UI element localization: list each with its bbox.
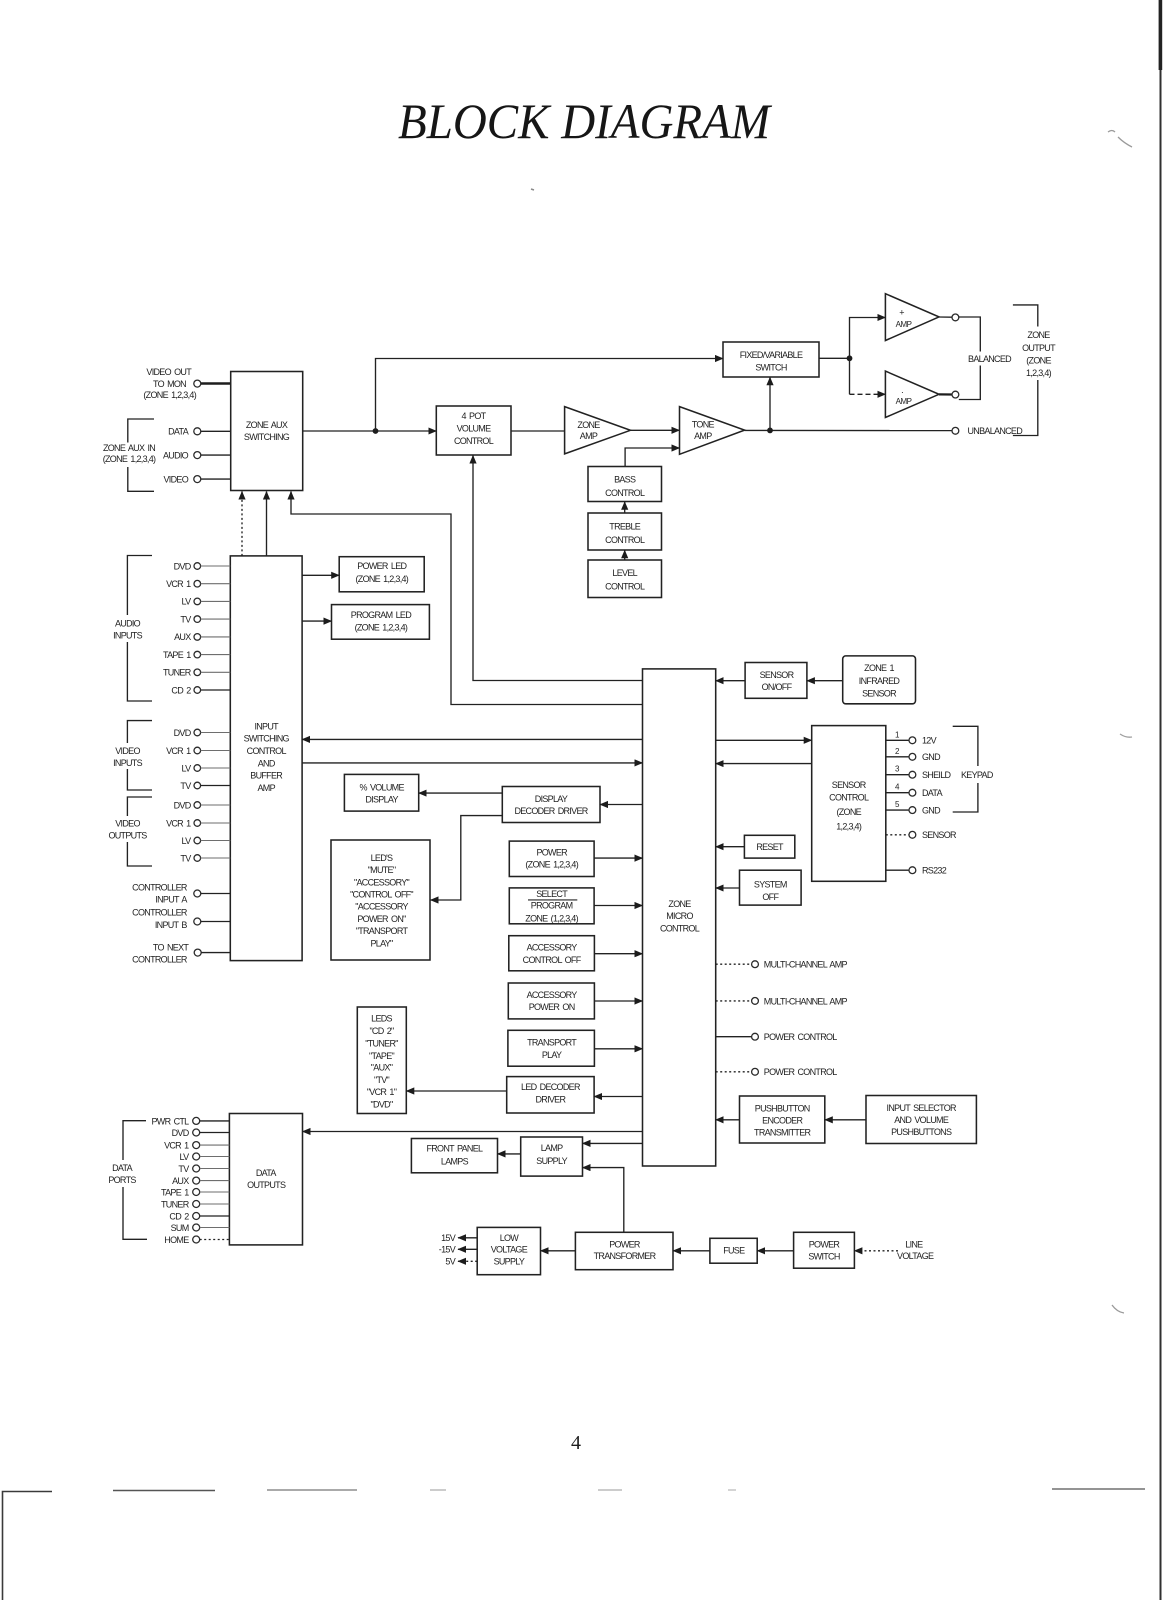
svg-text:"AUX": "AUX" bbox=[371, 1063, 393, 1073]
svg-text:POWER CONTROL: POWER CONTROL bbox=[764, 1067, 837, 1077]
svg-text:ON/OFF: ON/OFF bbox=[762, 682, 793, 692]
svg-text:TUNER: TUNER bbox=[163, 668, 192, 678]
svg-text:5V: 5V bbox=[445, 1257, 455, 1267]
svg-text:(ZONE 1,2,3,4): (ZONE 1,2,3,4) bbox=[143, 390, 196, 400]
wire 4 POT to ZONE AMP bbox=[511, 430, 565, 432]
svg-text:"TRANSPORT: "TRANSPORT bbox=[356, 926, 409, 936]
svg-text:AUX: AUX bbox=[174, 632, 191, 642]
terminal TUNER (data port) bbox=[161, 1199, 229, 1209]
wire ZONE AUX SWITCHING to 4 POT VOLUME CONTROL bbox=[303, 430, 437, 432]
svg-text:CONTROL: CONTROL bbox=[605, 488, 645, 498]
wire input switching to zone aux (solid) bbox=[266, 492, 268, 556]
block DISPLAY DECODER DRIVER bbox=[502, 787, 600, 823]
svg-text:"CD 2": "CD 2" bbox=[369, 1026, 394, 1036]
svg-text:AND VOLUME: AND VOLUME bbox=[894, 1115, 949, 1125]
svg-text:SWITCHING: SWITCHING bbox=[244, 734, 290, 744]
svg-text:ZONE 1: ZONE 1 bbox=[864, 663, 894, 673]
svg-text:-15V: -15V bbox=[439, 1245, 456, 1255]
svg-text:ENCODER: ENCODER bbox=[762, 1115, 803, 1125]
svg-text:TONE: TONE bbox=[692, 420, 715, 430]
terminal CONTROLLER INPUT A bbox=[132, 882, 230, 904]
terminal DVD (data port) bbox=[172, 1128, 230, 1138]
svg-text:AND: AND bbox=[258, 758, 276, 768]
svg-text:DVD: DVD bbox=[174, 800, 192, 810]
svg-text:AUDIO: AUDIO bbox=[163, 450, 189, 460]
svg-text:"CONTROL OFF": "CONTROL OFF" bbox=[350, 890, 413, 900]
svg-text:PROGRAM: PROGRAM bbox=[531, 901, 573, 911]
wire system off to zone micro bbox=[716, 887, 740, 889]
scan artifact: right edge line bbox=[1160, 0, 1162, 1600]
svg-text:ZONE AUX: ZONE AUX bbox=[246, 420, 288, 430]
svg-text:VOLTAGE: VOLTAGE bbox=[897, 1251, 934, 1261]
svg-text:INPUTS: INPUTS bbox=[113, 758, 143, 768]
svg-text:TUNER: TUNER bbox=[161, 1199, 190, 1209]
svg-text:POWER CONTROL: POWER CONTROL bbox=[764, 1032, 837, 1042]
wire zone micro to led decoder driver bbox=[594, 1096, 642, 1098]
svg-text:INPUT B: INPUT B bbox=[155, 920, 188, 930]
bracket ZONE OUTPUT (ZONE 1,2,3,4) bbox=[1013, 305, 1056, 436]
wire input switching to program led bbox=[302, 620, 331, 622]
terminal DATA bbox=[168, 427, 231, 437]
svg-text:ZONE (1,2,3,4): ZONE (1,2,3,4) bbox=[525, 913, 578, 923]
svg-text:(ZONE 1,2,3,4): (ZONE 1,2,3,4) bbox=[525, 860, 578, 870]
block POWER LED (ZONE 1,2,3,4) bbox=[339, 557, 424, 592]
svg-text:SENSOR: SENSOR bbox=[760, 670, 795, 680]
svg-text:TAPE 1: TAPE 1 bbox=[161, 1187, 189, 1197]
svg-text:PUSHBUTTONS: PUSHBUTTONS bbox=[891, 1127, 952, 1137]
wire accessory power on to zone micro bbox=[594, 1000, 642, 1002]
svg-text:SWITCH: SWITCH bbox=[755, 362, 786, 372]
svg-text:(ZONE 1,2,3,4): (ZONE 1,2,3,4) bbox=[103, 454, 156, 464]
terminal +AMP output bbox=[939, 316, 952, 318]
bracket VIDEO OUTPUTS bbox=[108, 797, 152, 866]
svg-text:SUPPLY: SUPPLY bbox=[536, 1156, 567, 1166]
wire BASS CONTROL up to TONE AMP bbox=[625, 448, 679, 467]
bracket AUDIO INPUTS bbox=[113, 556, 152, 702]
svg-text:CONTROL OFF: CONTROL OFF bbox=[523, 955, 582, 965]
block ZONE AUX SWITCHING bbox=[231, 372, 303, 491]
wire junction to minus amp (dashed) bbox=[849, 358, 851, 394]
svg-text:PLAY": PLAY" bbox=[370, 938, 393, 948]
block LOW VOLTAGE SUPPLY bbox=[477, 1227, 540, 1274]
svg-text:LED'S: LED'S bbox=[371, 853, 393, 863]
svg-text:KEYPAD: KEYPAD bbox=[961, 770, 994, 780]
svg-text:RESET: RESET bbox=[756, 842, 784, 852]
terminal 5V output bbox=[445, 1257, 477, 1267]
svg-text:RS232: RS232 bbox=[922, 866, 947, 876]
svg-text:CONTROLLER: CONTROLLER bbox=[132, 907, 188, 917]
svg-text:DISPLAY: DISPLAY bbox=[535, 794, 568, 804]
svg-text:LEVEL: LEVEL bbox=[612, 568, 637, 578]
svg-text:FIXED/VARIABLE: FIXED/VARIABLE bbox=[740, 350, 803, 360]
svg-text:CONTROL: CONTROL bbox=[605, 581, 645, 591]
block BASS CONTROL bbox=[588, 467, 662, 502]
wire ZONE MICRO to zone aux switching bbox=[291, 492, 643, 705]
svg-text:CONTROL: CONTROL bbox=[454, 436, 494, 446]
wire LEVEL to TREBLE bbox=[624, 550, 626, 560]
svg-text:DATA: DATA bbox=[112, 1163, 133, 1173]
block DATA OUTPUTS bbox=[229, 1114, 302, 1245]
wire junction up to fixed/variable switch bottom bbox=[769, 377, 771, 430]
terminal TV (data port) bbox=[178, 1164, 229, 1174]
svg-text:.: . bbox=[901, 385, 903, 395]
block LED DECODER DRIVER bbox=[507, 1077, 594, 1113]
svg-text:VOLUME: VOLUME bbox=[457, 423, 492, 433]
terminal SUM (data port) bbox=[171, 1223, 230, 1233]
bracket DATA PORTS bbox=[108, 1121, 147, 1240]
svg-text:"ACCESSORY": "ACCESSORY" bbox=[354, 877, 410, 887]
svg-text:"TUNER": "TUNER" bbox=[365, 1039, 398, 1049]
node junction after tone amp bbox=[767, 428, 773, 434]
svg-text:UNBALANCED: UNBALANCED bbox=[968, 426, 1024, 436]
terminal PWR CTL (data port) bbox=[151, 1116, 229, 1126]
svg-text:BASS: BASS bbox=[614, 475, 636, 485]
terminal VCR 1 (video input) bbox=[166, 746, 230, 756]
svg-text:AMP: AMP bbox=[694, 431, 712, 441]
terminal CD 2 (data port) bbox=[169, 1211, 229, 1221]
wire display decoder driver to % volume display bbox=[419, 792, 503, 794]
svg-text:TO NEXT: TO NEXT bbox=[153, 942, 190, 952]
svg-text:PUSHBUTTON: PUSHBUTTON bbox=[755, 1103, 810, 1113]
wire led decoder driver to leds box bbox=[406, 1090, 506, 1092]
block FUSE bbox=[710, 1238, 757, 1263]
wire power switch to fuse bbox=[757, 1250, 793, 1252]
svg-text:ZONE: ZONE bbox=[577, 420, 600, 430]
svg-text:SUPPLY: SUPPLY bbox=[494, 1257, 525, 1267]
svg-text:TAPE 1: TAPE 1 bbox=[163, 650, 191, 660]
block POWER (ZONE 1,2,3,4) bbox=[509, 841, 594, 876]
block TRANSPORT PLAY bbox=[508, 1030, 595, 1066]
svg-text:DRIVER: DRIVER bbox=[535, 1095, 566, 1105]
svg-text:SHEILD: SHEILD bbox=[922, 770, 952, 780]
terminal VCR 1 (audio input) bbox=[166, 579, 230, 589]
svg-text:BUFFER: BUFFER bbox=[250, 771, 283, 781]
wire sensor control to zone micro bbox=[716, 763, 812, 765]
svg-text:SENSOR: SENSOR bbox=[832, 780, 867, 790]
svg-text:DVD: DVD bbox=[174, 561, 192, 571]
svg-text:DATA: DATA bbox=[168, 427, 189, 437]
block FIXED/VARIABLE SWITCH bbox=[723, 342, 819, 377]
svg-text:1,2,3,4): 1,2,3,4) bbox=[836, 821, 862, 831]
svg-text:(ZONE: (ZONE bbox=[836, 807, 861, 817]
wire lamp supply to front panel lamps bbox=[498, 1153, 521, 1155]
block LED'S MUTE ACCESSORY list bbox=[331, 840, 430, 960]
svg-text:4: 4 bbox=[571, 1432, 581, 1454]
terminal RS232 bbox=[886, 866, 947, 876]
terminal UNBALANCED bbox=[952, 426, 1023, 436]
svg-text:INPUTS: INPUTS bbox=[113, 631, 143, 641]
svg-text:DVD: DVD bbox=[174, 728, 192, 738]
wire fixed/variable to amp pair junction bbox=[819, 357, 850, 359]
terminal HOME (data port) bbox=[164, 1235, 229, 1245]
amplifier +AMP bbox=[885, 294, 939, 341]
svg-text:POWER ON: POWER ON bbox=[529, 1002, 575, 1012]
bracket KEYPAD bbox=[953, 726, 994, 812]
svg-text:PLAY: PLAY bbox=[542, 1050, 562, 1060]
svg-text:PORTS: PORTS bbox=[108, 1175, 136, 1185]
svg-text:TV: TV bbox=[180, 614, 191, 624]
svg-text:AUX: AUX bbox=[172, 1176, 189, 1186]
svg-text:MULTI-CHANNEL AMP: MULTI-CHANNEL AMP bbox=[764, 996, 848, 1006]
svg-text:TO MON: TO MON bbox=[153, 379, 186, 389]
terminal LV (data port) bbox=[180, 1152, 230, 1162]
svg-text:SENSOR: SENSOR bbox=[922, 830, 957, 840]
block SENSOR CONTROL (ZONE 1,2,3,4) bbox=[812, 726, 886, 882]
svg-text:FUSE: FUSE bbox=[723, 1246, 745, 1256]
svg-text:4 POT: 4 POT bbox=[462, 411, 487, 421]
svg-text:CONTROLLER: CONTROLLER bbox=[132, 882, 188, 892]
svg-text:POWER LED: POWER LED bbox=[357, 561, 407, 571]
svg-text:TV: TV bbox=[180, 781, 191, 791]
wire INPUT SWITCHING to ZONE MICRO bbox=[302, 762, 642, 764]
wire ZONE MICRO to INPUT SWITCHING bbox=[302, 738, 642, 740]
svg-text:DISPLAY: DISPLAY bbox=[365, 794, 398, 804]
svg-text:VCR 1: VCR 1 bbox=[166, 746, 191, 756]
wire junction to plus amp bbox=[850, 318, 886, 359]
block INPUT SELECTOR AND VOLUME PUSHBUTTONS bbox=[866, 1096, 976, 1144]
block LEVEL CONTROL bbox=[588, 560, 662, 598]
svg-text:"ACCESSORY: "ACCESSORY bbox=[355, 902, 408, 912]
wire input switching to zone aux (dashed) bbox=[241, 492, 243, 556]
svg-text:CONTROL: CONTROL bbox=[605, 535, 645, 545]
wire fuse to power transformer bbox=[673, 1250, 710, 1252]
svg-text:VCR 1: VCR 1 bbox=[164, 1141, 189, 1151]
block ZONE 1 INFRARED SENSOR bbox=[843, 656, 916, 704]
block SENSOR ON/OFF bbox=[745, 663, 807, 699]
node junction amp split bbox=[847, 355, 853, 361]
scan artifact: bottom dashed page edge bbox=[113, 1490, 215, 1492]
keypad pin 2 GND bbox=[886, 747, 941, 762]
svg-text:POWER: POWER bbox=[536, 847, 568, 857]
terminal VCR 1 (video output) bbox=[166, 818, 230, 828]
svg-text:AMP: AMP bbox=[896, 320, 912, 329]
svg-text:DATA: DATA bbox=[922, 788, 943, 798]
svg-text:TRANSPORT: TRANSPORT bbox=[527, 1038, 577, 1048]
svg-text:SENSOR: SENSOR bbox=[862, 688, 897, 698]
wire ZONE AMP to TONE AMP bbox=[630, 429, 679, 431]
svg-text:ACCESSORY: ACCESSORY bbox=[527, 990, 578, 1000]
svg-text:VIDEO: VIDEO bbox=[163, 474, 188, 484]
svg-text:VIDEO OUT: VIDEO OUT bbox=[146, 367, 192, 377]
terminal LV (video output) bbox=[182, 836, 231, 846]
bracket VIDEO INPUTS bbox=[113, 721, 152, 790]
svg-text:12V: 12V bbox=[922, 736, 937, 746]
wire junction up to fixed/variable switch bbox=[376, 359, 724, 432]
svg-text:BALANCED: BALANCED bbox=[968, 354, 1012, 364]
wire power transformer to lamp supply bbox=[583, 1168, 624, 1233]
svg-text:DECODER DRIVER: DECODER DRIVER bbox=[514, 806, 588, 816]
terminal -AMP output bbox=[939, 393, 952, 395]
svg-text:"TAPE": "TAPE" bbox=[369, 1051, 395, 1061]
svg-text:LINE: LINE bbox=[905, 1240, 923, 1250]
svg-text:GND: GND bbox=[922, 806, 941, 816]
svg-text:VOLTAGE: VOLTAGE bbox=[491, 1245, 528, 1255]
wire zone 1 infrared sensor to sensor on/off bbox=[807, 680, 843, 682]
svg-text:BLOCK DIAGRAM: BLOCK DIAGRAM bbox=[398, 93, 772, 149]
svg-text:MULTI-CHANNEL AMP: MULTI-CHANNEL AMP bbox=[764, 960, 848, 970]
scan artifact: bottom-left page corner bbox=[3, 1492, 53, 1600]
svg-text:AMP: AMP bbox=[580, 431, 598, 441]
svg-text:ACCESSORY: ACCESSORY bbox=[527, 943, 578, 953]
block ZONE MICRO CONTROL bbox=[643, 669, 716, 1166]
svg-text:"MUTE": "MUTE" bbox=[368, 865, 396, 875]
block 4 POT VOLUME CONTROL bbox=[436, 406, 511, 455]
svg-text:LV: LV bbox=[182, 597, 192, 607]
svg-text:CD 2: CD 2 bbox=[171, 685, 191, 695]
svg-text:INFRARED: INFRARED bbox=[859, 676, 901, 686]
svg-text:CONTROLLER: CONTROLLER bbox=[132, 954, 188, 964]
wire accessory control off to zone micro bbox=[594, 953, 642, 955]
amplifier TONE AMP bbox=[680, 407, 745, 455]
terminal -15V output bbox=[439, 1245, 477, 1255]
svg-text:SUM: SUM bbox=[171, 1223, 189, 1233]
svg-text:INPUT A: INPUT A bbox=[155, 895, 187, 905]
keypad pin 3 SHEILD bbox=[886, 765, 952, 780]
svg-text:LV: LV bbox=[180, 1152, 190, 1162]
block PROGRAM LED (ZONE 1,2,3,4) bbox=[332, 605, 430, 640]
terminal POWER CONTROL 1 bbox=[716, 1032, 838, 1042]
terminal MULTI-CHANNEL AMP 2 bbox=[716, 996, 848, 1006]
wire ZONE MICRO to display decoder driver bbox=[600, 804, 643, 806]
keypad pin 1 12V bbox=[886, 730, 937, 745]
keypad pin 4 DATA bbox=[886, 783, 943, 798]
terminal VIDEO OUT TO MON bbox=[143, 367, 231, 400]
wire TONE AMP to unbalanced output bbox=[745, 429, 952, 431]
svg-text:ZONE AUX IN: ZONE AUX IN bbox=[103, 443, 155, 453]
svg-text:FRONT PANEL: FRONT PANEL bbox=[426, 1143, 483, 1153]
terminal TV (video output) bbox=[180, 853, 230, 863]
terminal DVD (video input) bbox=[174, 728, 231, 738]
svg-text:TRANSFORMER: TRANSFORMER bbox=[594, 1251, 657, 1261]
terminal TV (video input) bbox=[180, 781, 230, 791]
svg-text:LOW: LOW bbox=[500, 1233, 520, 1243]
terminal DVD (audio input) bbox=[174, 561, 231, 571]
terminal CD 2 (audio input) bbox=[171, 685, 230, 695]
terminal LV (audio input) bbox=[182, 597, 231, 607]
terminal AUDIO bbox=[163, 450, 231, 460]
wire power transformer to low voltage supply bbox=[541, 1250, 576, 1252]
wire input switching to power led bbox=[302, 574, 339, 576]
svg-text:TV: TV bbox=[180, 853, 191, 863]
svg-text:LED DECODER: LED DECODER bbox=[521, 1082, 581, 1092]
terminal CONTROLLER INPUT B bbox=[132, 907, 230, 930]
wire transport play to zone micro bbox=[594, 1048, 642, 1050]
svg-text:% VOLUME: % VOLUME bbox=[359, 783, 404, 793]
block ACCESSORY POWER ON bbox=[508, 983, 594, 1019]
svg-text:VCR 1: VCR 1 bbox=[166, 579, 191, 589]
wire ZONE MICRO to 4 POT VOLUME CONTROL bottom bbox=[473, 456, 643, 681]
svg-text:LAMPS: LAMPS bbox=[441, 1156, 469, 1166]
svg-text:CONTROL: CONTROL bbox=[829, 793, 869, 803]
svg-text:TREBLE: TREBLE bbox=[609, 521, 641, 531]
bracket BALANCED bbox=[959, 317, 1012, 400]
block INPUT SWITCHING CONTROL AND BUFFER AMP bbox=[230, 556, 302, 961]
terminal SENSOR bbox=[886, 830, 957, 840]
svg-text:VIDEO: VIDEO bbox=[115, 818, 140, 828]
block POWER TRANSFORMER bbox=[575, 1232, 673, 1269]
svg-text:DVD: DVD bbox=[172, 1128, 190, 1138]
svg-text:(ZONE: (ZONE bbox=[1026, 355, 1051, 365]
svg-text:SWITCHING: SWITCHING bbox=[244, 432, 290, 442]
svg-text:"DVD": "DVD" bbox=[371, 1099, 393, 1109]
svg-text:POWER ON": POWER ON" bbox=[357, 914, 406, 924]
svg-text:SYSTEM: SYSTEM bbox=[754, 879, 787, 889]
terminal TAPE 1 (data port) bbox=[161, 1187, 229, 1197]
svg-text:OFF: OFF bbox=[762, 892, 779, 902]
block POWER SWITCH bbox=[794, 1232, 855, 1268]
svg-text:1,2,3,4): 1,2,3,4) bbox=[1026, 368, 1052, 378]
bracket ZONE AUX IN bbox=[103, 419, 156, 491]
keypad pin 5 GND bbox=[886, 800, 941, 815]
svg-text:(ZONE 1,2,3,4): (ZONE 1,2,3,4) bbox=[355, 622, 408, 632]
svg-text:+: + bbox=[899, 307, 904, 317]
svg-text:"VCR 1": "VCR 1" bbox=[367, 1087, 397, 1097]
svg-text:PROGRAM LED: PROGRAM LED bbox=[351, 610, 412, 620]
terminal DVD (video output) bbox=[174, 800, 231, 810]
svg-text:DATA: DATA bbox=[256, 1168, 277, 1178]
wire sensor on/off to zone micro bbox=[716, 680, 745, 682]
wire display decoder driver to LED'S box bbox=[431, 816, 503, 900]
svg-text:OUTPUTS: OUTPUTS bbox=[247, 1180, 286, 1190]
svg-text:15V: 15V bbox=[441, 1233, 456, 1243]
block LEDS CD2 TUNER list bbox=[357, 1007, 406, 1114]
terminal VCR 1 (data port) bbox=[164, 1141, 229, 1151]
terminal AUX (audio input) bbox=[174, 632, 230, 642]
svg-text:AMP: AMP bbox=[257, 783, 275, 793]
wire zone micro to sensor control bbox=[716, 739, 812, 741]
svg-text:INPUT SELECTOR: INPUT SELECTOR bbox=[887, 1103, 957, 1113]
svg-text:(ZONE 1,2,3,4): (ZONE 1,2,3,4) bbox=[355, 574, 408, 584]
svg-text:SWITCH: SWITCH bbox=[808, 1252, 839, 1262]
svg-text:"TV": "TV" bbox=[374, 1075, 390, 1085]
terminal AUX (data port) bbox=[172, 1176, 229, 1186]
svg-text:HOME: HOME bbox=[164, 1235, 189, 1245]
svg-text:LAMP: LAMP bbox=[541, 1143, 563, 1153]
svg-text:SELECT: SELECT bbox=[536, 889, 568, 899]
block PUSHBUTTON ENCODER TRANSMITTER bbox=[740, 1096, 825, 1143]
block % VOLUME DISPLAY bbox=[344, 774, 418, 811]
svg-text:CD 2: CD 2 bbox=[169, 1211, 189, 1221]
block ACCESSORY CONTROL OFF bbox=[509, 936, 595, 971]
scan artifact: right margin squiggles bbox=[1108, 131, 1132, 148]
node junction on zone aux output bbox=[373, 428, 379, 434]
svg-text:MICRO: MICRO bbox=[666, 911, 693, 921]
block TREBLE CONTROL bbox=[588, 513, 662, 550]
svg-text:CONTROL: CONTROL bbox=[660, 923, 700, 933]
terminal TAPE 1 (audio input) bbox=[163, 650, 230, 660]
block SYSTEM OFF bbox=[740, 870, 802, 905]
terminal TV (audio input) bbox=[180, 614, 230, 624]
wire zone micro to lamp supply bbox=[583, 1142, 643, 1144]
svg-text:GND: GND bbox=[922, 752, 941, 762]
svg-text:ZONE: ZONE bbox=[668, 899, 691, 909]
svg-text:LEDS: LEDS bbox=[371, 1014, 392, 1024]
svg-text:OUTPUT: OUTPUT bbox=[1022, 343, 1056, 353]
svg-text:LV: LV bbox=[182, 763, 192, 773]
wire TREBLE to BASS bbox=[624, 502, 626, 513]
wire power box to zone micro bbox=[594, 857, 642, 859]
terminal MULTI-CHANNEL AMP 1 bbox=[716, 960, 848, 970]
svg-text:LV: LV bbox=[182, 836, 192, 846]
svg-text:CONTROL: CONTROL bbox=[247, 746, 287, 756]
svg-text:VCR 1: VCR 1 bbox=[166, 818, 191, 828]
block LAMP SUPPLY bbox=[521, 1137, 583, 1176]
terminal TO NEXT CONTROLLER bbox=[132, 942, 230, 964]
block FRONT PANEL LAMPS bbox=[411, 1139, 497, 1173]
svg-text:PWR CTL: PWR CTL bbox=[151, 1116, 189, 1126]
svg-text:AUDIO: AUDIO bbox=[115, 618, 141, 628]
terminal LV (video input) bbox=[182, 763, 231, 773]
